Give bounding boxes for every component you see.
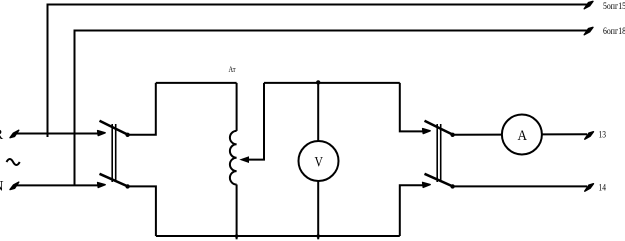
svg-text:Ат: Ат (229, 65, 236, 74)
wire R supply (16, 133, 101, 135)
switch S1 mechanical link (111, 124, 113, 182)
svg-text:V: V (315, 155, 324, 171)
wire S1 bottom contact to bottom bus (128, 186, 156, 236)
wire wiper tap to top bus (248, 83, 264, 160)
arrow at terminal 14 (585, 184, 594, 192)
wiper arrow of autotransformer (239, 156, 249, 163)
wire W2 vertical+horizontal to terminal 6 (75, 31, 588, 186)
arrow at terminal 13 (585, 132, 594, 140)
wire N supply (16, 184, 101, 186)
wire transformer box top (156, 82, 237, 84)
arrow into switch S1 bottom (98, 183, 106, 188)
svg-text:A: A (518, 128, 528, 144)
svg-text:5опг15: 5опг15 (603, 2, 625, 12)
junction S2 bottom contact (450, 184, 454, 188)
switch S2 mechanical link (436, 124, 438, 182)
wire right top corner down (400, 83, 426, 131)
junction S1 top contact (125, 133, 129, 137)
wire voltmeter bottom lead (317, 181, 319, 240)
wire coil column bottom (236, 185, 238, 240)
arrow into switch S2 bottom (423, 182, 431, 187)
voltmeter V (299, 141, 339, 181)
wire right bottom corner up (400, 185, 426, 236)
junction S2 top contact (450, 133, 454, 137)
junction voltmeter bottom (316, 234, 320, 238)
arrow R left end (10, 130, 19, 138)
svg-text:14: 14 (599, 184, 607, 194)
junction voltmeter top (316, 80, 320, 84)
junction S1 bottom contact (125, 184, 129, 188)
arrow at terminal 6 (584, 27, 593, 35)
arrow into switch S1 top (98, 131, 106, 136)
arrow at terminal 5 (584, 1, 593, 9)
ammeter A (502, 115, 542, 155)
wire S2 bottom contact to terminal 14 (453, 185, 587, 187)
AC source tilde (7, 159, 20, 165)
wire voltmeter top lead (317, 83, 319, 142)
junction coil bottom on bus (235, 234, 239, 238)
wire ammeter to terminal 13 (542, 133, 587, 135)
wire W1 vertical+horizontal to terminal 5 (48, 5, 588, 138)
switch S2 top blade (425, 121, 454, 135)
switch S1 bottom blade (100, 174, 129, 187)
svg-text:R: R (0, 127, 3, 143)
wire top bus tap to right corner (264, 82, 400, 84)
svg-text:N: N (0, 179, 4, 195)
wire bottom bus (156, 235, 400, 237)
wire S2 top contact to ammeter (453, 134, 502, 136)
switch S2 bottom blade (425, 174, 454, 187)
wire coil column top (236, 83, 238, 131)
arrow into switch S2 top (423, 129, 431, 134)
svg-text:13: 13 (599, 131, 607, 141)
autotransformer winding coil (230, 131, 237, 185)
arrow N left end (10, 182, 19, 190)
wire S1 top contact to transformer box (128, 83, 156, 135)
switch S1 top blade (100, 121, 129, 135)
svg-text:6опг18: 6опг18 (603, 27, 625, 37)
